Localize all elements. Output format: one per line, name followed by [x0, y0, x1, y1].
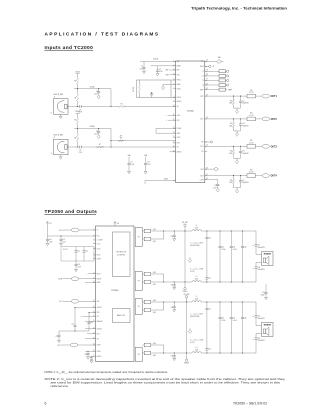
svg-text:10uH: 10uH [195, 227, 198, 229]
footer document id [233, 402, 267, 406]
svg-text:0.1uF: 0.1uF [139, 68, 143, 70]
svg-text:BBM LOGIC: BBM LOGIC [117, 315, 125, 317]
ferrite bead FB2 OUT2 [262, 117, 269, 121]
svg-text:TP2: TP2 [201, 142, 204, 144]
svg-text:L2: L2 [196, 276, 198, 278]
svg-text:C32: C32 [208, 237, 211, 239]
svg-text:HB: HB [138, 354, 140, 356]
svg-text:470pF/50V: 470pF/50V [242, 126, 249, 128]
svg-text:Q1B: Q1B [153, 241, 156, 243]
svg-text:R1 10K: R1 10K [133, 87, 135, 92]
U2 left pin 6 (MUTE) [93, 254, 100, 257]
wire output B ch2 [164, 352, 256, 353]
wire U2 IN2 stub [85, 338, 96, 340]
U1 right pin (REF2) [200, 66, 207, 68]
U2 left pin 10 (AGND) [93, 281, 101, 284]
svg-text:HB: HB [138, 281, 140, 283]
ground stub below J1 [59, 114, 62, 118]
wire 5V rail to U2 VDD [48, 235, 96, 237]
svg-text:23: 23 [206, 167, 208, 169]
U1 pin 3 stub [166, 70, 176, 72]
U1 left pin 8 (FBKO2) [173, 96, 181, 99]
svg-text:Q4A: Q4A [153, 342, 156, 345]
svg-text:R3: R3 [74, 98, 76, 100]
wire join Q4 [163, 345, 164, 354]
svg-text:NC: NC [202, 151, 204, 153]
svg-text:RCA_IN_BNC: RCA_IN_BNC [54, 93, 64, 96]
svg-text:x: x [166, 120, 167, 122]
ground stub below J2 [59, 155, 62, 159]
power terminal PGND1 [183, 288, 188, 294]
svg-text:1000uF/25V: 1000uF/25V [258, 269, 265, 271]
wire join Q2 [163, 274, 164, 283]
svg-text:10, 1W: 10, 1W [249, 142, 254, 144]
resistor R12 shunt OUT2 [229, 119, 235, 131]
svg-text:AGND: AGND [177, 65, 181, 68]
svg-text:VDD: VDD [97, 236, 100, 238]
svg-text:C33: C33 [208, 278, 211, 280]
svg-text:1: 1 [51, 153, 52, 155]
capacitor C55 filter leg 3 ch2 [230, 302, 237, 353]
svg-text:SPEAKER: SPEAKER [264, 324, 272, 327]
ground diamond OUT3 shunt [234, 158, 241, 163]
svg-text:Tripath Technology, Inc. - Tec: Tripath Technology, Inc. - Technical Inf… [191, 6, 288, 10]
svg-text:8: 8 [94, 272, 95, 274]
U1 left pin 3 (REF) [173, 69, 179, 72]
capacitor C50 bootstrap B [171, 352, 176, 358]
svg-text:IN1: IN1 [97, 316, 99, 318]
net VDDA bias rail A [74, 85, 111, 88]
resistor RT5 (right header) [205, 88, 232, 92]
svg-text:L4: L4 [196, 347, 198, 349]
svg-text:HB: HB [138, 306, 140, 308]
wire input A to U1 [68, 106, 176, 108]
svg-text:V5B: V5B [97, 301, 100, 303]
svg-text:10: 10 [93, 281, 95, 283]
svg-text:MUTE: MUTE [58, 279, 62, 281]
svg-text:IN2: IN2 [177, 147, 179, 149]
capacitor C28 at U2 DGND [84, 351, 95, 357]
capacitor C48 electrolytic + lower ch1 [253, 263, 265, 283]
power terminal PGND2 [184, 359, 189, 365]
svg-text:TC2000: TC2000 [187, 111, 195, 113]
resistor gate Q2b [142, 280, 164, 286]
svg-text:R11: R11 [250, 90, 253, 92]
svg-text:OUT2: OUT2 [200, 119, 204, 121]
capacitor C13 shunt OUT2 [239, 119, 249, 131]
svg-text:40: 40 [206, 60, 208, 62]
ground below C28 [87, 357, 90, 359]
resistor R8 feedback to U1 pin INV2 [111, 136, 176, 142]
capacitor C40 bootstrap B [171, 281, 176, 287]
svg-text:INV1: INV1 [97, 312, 100, 314]
resistor gate Q3a [142, 299, 164, 304]
svg-text:CAP1: CAP1 [177, 132, 181, 135]
svg-text:C35: C35 [233, 246, 236, 248]
svg-text:OCR1: OCR1 [97, 243, 101, 245]
capacitor C19 at U1 bottom right [205, 178, 220, 190]
wire VDDA rail to pin 1 [140, 61, 176, 63]
svg-text:(68uF/35V MIN): (68uF/35V MIN) [190, 245, 200, 247]
svg-text:INV1: INV1 [177, 120, 180, 122]
svg-text:OUT2: OUT2 [271, 119, 278, 121]
resistor gate Q3b [142, 308, 164, 314]
svg-text:1.00K: 1.00K [229, 103, 233, 105]
svg-text:R10: R10 [230, 100, 233, 102]
capacitor C42 filter leg 1 ch1 [205, 231, 211, 282]
svg-text:18: 18 [173, 150, 175, 152]
U2 left pin 9 (HMUTE) [93, 277, 101, 280]
U1 right pin V5A with off-page arrow [205, 56, 221, 62]
U2 left pin 17 (INV2) [93, 332, 100, 335]
svg-text:RCA_IN_BNC: RCA_IN_BNC [54, 134, 64, 137]
resistor R1 in feedback box [133, 80, 140, 98]
svg-text:T2: T2 [202, 76, 204, 78]
resistor gate Q1a [142, 228, 164, 233]
svg-text:C___ Linear = 0.68uF: C___ Linear = 0.68uF [190, 313, 203, 316]
U1 right pin (T2) [202, 76, 207, 78]
ground diamond OUT4 shunt [234, 188, 241, 193]
svg-text:OAO1: OAO1 [177, 114, 181, 117]
U1 right pin (NC) [202, 151, 208, 153]
transistor block Q3 (half bridge) [135, 299, 142, 315]
inductor L2 output B [192, 276, 201, 282]
svg-text:HMUTE: HMUTE [97, 278, 102, 280]
capacitor C58 electrolytic + lower ch2 [253, 334, 265, 354]
svg-text:V5: V5 [97, 230, 99, 232]
svg-text:0.1uF: 0.1uF [131, 164, 135, 166]
svg-text:C34: C34 [221, 246, 224, 248]
U2 left pin 15 (BIASCAP) [93, 320, 103, 323]
svg-text:BIASCAP: BIASCAP [97, 320, 103, 323]
ground below C20 [46, 243, 49, 245]
U2 left pin 20 (DGND) [93, 350, 101, 353]
svg-text:C28: C28 [84, 354, 87, 356]
svg-text:& CONTROL: & CONTROL [117, 254, 126, 256]
wire U1 bottom left AGND stub [145, 178, 176, 184]
capacitor C1 (VDDA decoupling) [139, 62, 145, 72]
svg-text:IN1: IN1 [177, 106, 179, 108]
svg-text:C5: C5 [79, 109, 81, 111]
svg-text:C_START: C_START [97, 239, 103, 242]
svg-text:18: 18 [93, 337, 95, 339]
svg-text:1.00K: 1.00K [229, 126, 233, 128]
svg-text:C8: C8 [79, 150, 81, 152]
svg-text:OAO2: OAO2 [177, 136, 181, 139]
svg-text:IN2: IN2 [97, 338, 99, 340]
U1 left pin 10 (IN1) [173, 105, 179, 108]
U1 left pin 7 (VDDA) [173, 87, 180, 90]
svg-text:C22: C22 [77, 251, 80, 253]
svg-text:R14: R14 [230, 151, 233, 153]
svg-text:INV2: INV2 [97, 333, 100, 335]
header text [191, 6, 288, 10]
wire output B ch1 [164, 281, 256, 282]
wire and capacitor C25 on OAOUT1 [71, 307, 95, 331]
svg-text:R5: R5 [74, 120, 76, 122]
svg-text:J1: J1 [54, 96, 56, 98]
capacitor C50 speaker cable decoupling [261, 284, 268, 297]
footer page number [45, 402, 47, 406]
svg-text:+: + [253, 339, 254, 341]
supply VDDA tap channel A [75, 70, 79, 73]
resistor gate Q1b [142, 237, 164, 243]
U2 left pin 14 (IN1) [93, 315, 99, 318]
ferrite bead FB3 OUT3 [262, 144, 269, 148]
note text filter ch2 upper [190, 313, 203, 318]
off-page connector diamond V5A [217, 60, 224, 64]
capacitor C49 bootstrap A [171, 301, 176, 309]
svg-text:VNN: VNN [177, 74, 180, 76]
net VDDA rail top [153, 58, 159, 61]
wire join Q3 [163, 301, 164, 310]
svg-text:15: 15 [173, 136, 175, 138]
U2 left pin 16 (OAOUT2) [93, 327, 102, 330]
capacitor C2 (VDDA decoupling) [156, 66, 163, 74]
svg-text:1.00K: 1.00K [229, 182, 233, 184]
U1 pin stub INV1 [166, 120, 175, 122]
svg-text:+: + [253, 316, 254, 318]
svg-text:C15: C15 [242, 151, 245, 153]
svg-text:PROTECTION: PROTECTION [116, 252, 125, 254]
svg-text:T3: T3 [202, 80, 204, 82]
svg-text:9: 9 [94, 277, 95, 279]
svg-text:1.0uF: 1.0uF [94, 133, 98, 135]
U2 left pin 13 (INV1) [93, 311, 100, 314]
U1 left pin 14 (CAP1) [173, 132, 181, 135]
ferrite bead FB4 OUT4 [262, 174, 269, 178]
ground diamond below C19 [216, 188, 219, 192]
U1 pin stub OAO1 [166, 115, 175, 117]
svg-text:NOTE 1: C__/R__ are optional: NOTE 1: C__/R__ are optional external co… [45, 370, 169, 374]
svg-text:FAULT: FAULT [97, 272, 101, 275]
supply VDDA tap channel B [75, 110, 79, 113]
U2 left pin 19 (VDDB) [93, 344, 100, 347]
inductor L4 output B [192, 347, 201, 353]
svg-text:OAOUT1: OAOUT1 [97, 306, 103, 309]
svg-text:VREF: VREF [228, 89, 232, 91]
U2 left pin 21 (AGND2) [93, 355, 102, 358]
svg-text:13: 13 [93, 311, 95, 313]
resistor gate Q4b [142, 351, 164, 357]
capacitor C5 series input A [79, 105, 83, 114]
ground below C21 [60, 243, 63, 245]
capacitor C30 in feedback box [150, 92, 153, 97]
svg-text:38: 38 [206, 74, 208, 76]
svg-text:C30: C30 [171, 307, 174, 309]
wire U2 OAOUT2 stub [85, 328, 96, 330]
capacitor C54 filter leg 2 ch2 [219, 302, 226, 353]
U1 left pin 16 (INV2) [173, 142, 180, 145]
transistor block Q2 (half bridge) [135, 272, 142, 291]
svg-text:R12: R12 [230, 123, 233, 125]
svg-text:C9: C9 [131, 162, 133, 164]
svg-text:VDDB: VDDB [97, 345, 101, 347]
svg-text:R7: R7 [99, 144, 101, 146]
wire output A ch2 [164, 301, 256, 302]
svg-text:V5D: V5D [201, 61, 204, 63]
svg-text:12: 12 [173, 119, 175, 121]
svg-text:20K: 20K [120, 136, 123, 138]
svg-text:13: 13 [173, 127, 175, 129]
wire U1 output channel OUT1 [205, 94, 262, 96]
svg-text:0.22uF: 0.22uF [233, 320, 237, 322]
U1 left pin 4 (VNN) [173, 73, 179, 76]
node label OUT1 [271, 96, 278, 98]
svg-text:C17: C17 [242, 180, 245, 182]
resistor R5 (bias upper B) [74, 114, 78, 129]
svg-text:C37: C37 [258, 245, 261, 247]
wire U1 output channel OUT3 [205, 145, 262, 147]
svg-text:C31: C31 [171, 284, 174, 286]
node label OUT4 [271, 175, 278, 178]
svg-text:R15: R15 [250, 140, 253, 142]
node label OUT2 [271, 119, 278, 121]
svg-text:R4: R4 [121, 103, 123, 105]
wire and capacitor C26 on INV1 [88, 312, 96, 331]
svg-text:39: 39 [206, 70, 208, 72]
svg-text:17: 17 [93, 332, 95, 334]
wire feedback bottom [59, 330, 89, 331]
svg-text:C6: C6 [96, 131, 98, 133]
svg-text:PGND2: PGND2 [184, 363, 189, 365]
wire U2 FAULT stub [86, 274, 95, 276]
svg-text:(1/4 W): (1/4 W) [190, 271, 195, 273]
transistor block Q1 (half bridge) [135, 228, 142, 247]
resistor R16 shunt OUT4 [229, 176, 235, 188]
transistor block Q4 (half bridge) [135, 348, 142, 362]
U1 right pin ground diamond [205, 167, 219, 171]
wire U2 IN1 [80, 316, 95, 318]
svg-text:10uH: 10uH [195, 298, 198, 300]
svg-text:NOTE 1: NOTE 1 [63, 249, 68, 251]
section title TP2050 and Outputs [45, 209, 98, 215]
svg-text:GND: GND [201, 169, 204, 171]
note text filter ch1 upper [190, 242, 203, 247]
U2 left pin 12 (OAOUT1) [93, 306, 102, 309]
svg-text:15: 15 [93, 320, 95, 322]
svg-text:OUT1: OUT1 [200, 96, 204, 98]
svg-text:R8: R8 [120, 138, 122, 140]
svg-text:INV2: INV2 [177, 143, 180, 145]
U1 left pin 17 (IN2) [173, 146, 179, 149]
svg-text:V5A: V5A [177, 60, 180, 63]
svg-text:C31: C31 [171, 355, 174, 357]
wire output A ch1 [164, 230, 256, 231]
svg-text:0.1uF: 0.1uF [147, 164, 151, 166]
svg-text:R___ Linear = 1 OHM: R___ Linear = 1 OHM [190, 338, 204, 341]
feedback loop box (charge pump) [137, 80, 176, 98]
ground below C10 [144, 171, 147, 173]
svg-text:C37: C37 [258, 316, 261, 318]
svg-text:V5A: V5A [144, 154, 147, 157]
connector J1 RCA input A [51, 93, 68, 114]
svg-text:AGND3: AGND3 [177, 151, 182, 154]
svg-text:C10: C10 [147, 162, 150, 164]
svg-text:C50: C50 [262, 292, 265, 294]
resistor R17 series OUT4 [247, 169, 256, 177]
ground below bootstrap B ch1 [173, 287, 176, 289]
svg-text:VREF: VREF [200, 89, 204, 91]
capacitor C46 filter leg 4 ch1 [241, 231, 247, 282]
svg-text:1000uF/25V: 1000uF/25V [258, 247, 265, 249]
resistor R6 (bias lower B) [74, 128, 78, 148]
U2 inner block BBM logic [113, 309, 131, 323]
svg-text:x: x [80, 316, 81, 318]
svg-text:Q3B: Q3B [153, 312, 156, 314]
svg-text:REF2: REF2 [200, 66, 204, 68]
inductor L3 output A [192, 296, 201, 302]
capacitor C21 on 5V rail [60, 235, 66, 243]
U1 right pin (T4) [202, 85, 207, 87]
svg-text:L3: L3 [196, 296, 198, 298]
ground below C1 [143, 71, 146, 73]
resistor R11 series OUT1 [247, 90, 256, 98]
resistor R2 (bias upper A) [74, 74, 78, 89]
svg-text:C27: C27 [55, 336, 58, 338]
svg-text:0.22uF: 0.22uF [221, 320, 225, 322]
ferrite bead FB6 on HMUTE wire [58, 277, 95, 281]
svg-text:30: 30 [206, 117, 208, 119]
ground diamond OUT1 shunt [234, 108, 241, 113]
svg-text:VNN: VNN [166, 74, 169, 76]
note text filter ch2 lower [190, 338, 204, 343]
svg-text:11: 11 [93, 300, 95, 302]
U2 left pin 2 (VDD) [93, 235, 99, 238]
svg-text:VDDA: VDDA [177, 87, 181, 90]
svg-text:21: 21 [206, 174, 208, 176]
ground below C27 [58, 340, 61, 342]
ground diamond OUT2 shunt [234, 131, 241, 136]
svg-text:C33: C33 [208, 349, 211, 351]
resistor R14 shunt OUT3 [229, 146, 235, 158]
wire rail B down to input B [110, 128, 111, 147]
svg-text:C23: C23 [85, 251, 88, 253]
svg-text:x: x [166, 115, 167, 117]
U2 left pin 11 (V5B) [93, 300, 99, 303]
svg-text:10uF: 10uF [63, 242, 66, 244]
wire U2 BIASCAP [85, 320, 96, 322]
svg-text:5V: 5V [117, 223, 120, 225]
capacitor C27 to ground [55, 331, 60, 340]
U1 right pin test point circle [205, 65, 214, 68]
ferrite bead FB5 on V5 wire [59, 228, 96, 232]
ferrite bead FB1 OUT1 [262, 94, 269, 98]
svg-text:AGND: AGND [164, 178, 168, 181]
svg-text:470pF/50V: 470pF/50V [242, 182, 249, 184]
capacitor C57 electrolytic + upper ch2 [253, 302, 265, 326]
svg-text:V5A: V5A [128, 154, 131, 157]
svg-text:C13: C13 [242, 123, 245, 125]
svg-text:1000uF/25V: 1000uF/25V [258, 340, 265, 342]
capacitor C47 electrolytic + upper ch1 [253, 231, 265, 255]
svg-text:470pF/50V: 470pF/50V [242, 103, 249, 105]
svg-text:V5_B: V5_B [59, 301, 62, 303]
svg-text:SPEAKER: SPEAKER [264, 253, 272, 256]
svg-text:TK2050 – SB/1.0/9-02: TK2050 – SB/1.0/9-02 [233, 402, 267, 406]
svg-text:VDDA: VDDA [90, 125, 96, 128]
note text filter ch1 lower [190, 267, 204, 272]
ground below C2 [156, 74, 159, 76]
svg-text:2.2uF: 2.2uF [79, 152, 83, 154]
capacitor C23 optional [83, 247, 89, 262]
power terminal VN_SW1 [182, 222, 188, 287]
svg-text:C36: C36 [244, 246, 247, 248]
U1 pin 4 stub [166, 74, 176, 76]
ferrite bead FB7 on V5B wire [59, 299, 96, 303]
resistor R15 series OUT3 [247, 140, 256, 148]
U2 left pin 5 (OCR2) [93, 247, 100, 250]
